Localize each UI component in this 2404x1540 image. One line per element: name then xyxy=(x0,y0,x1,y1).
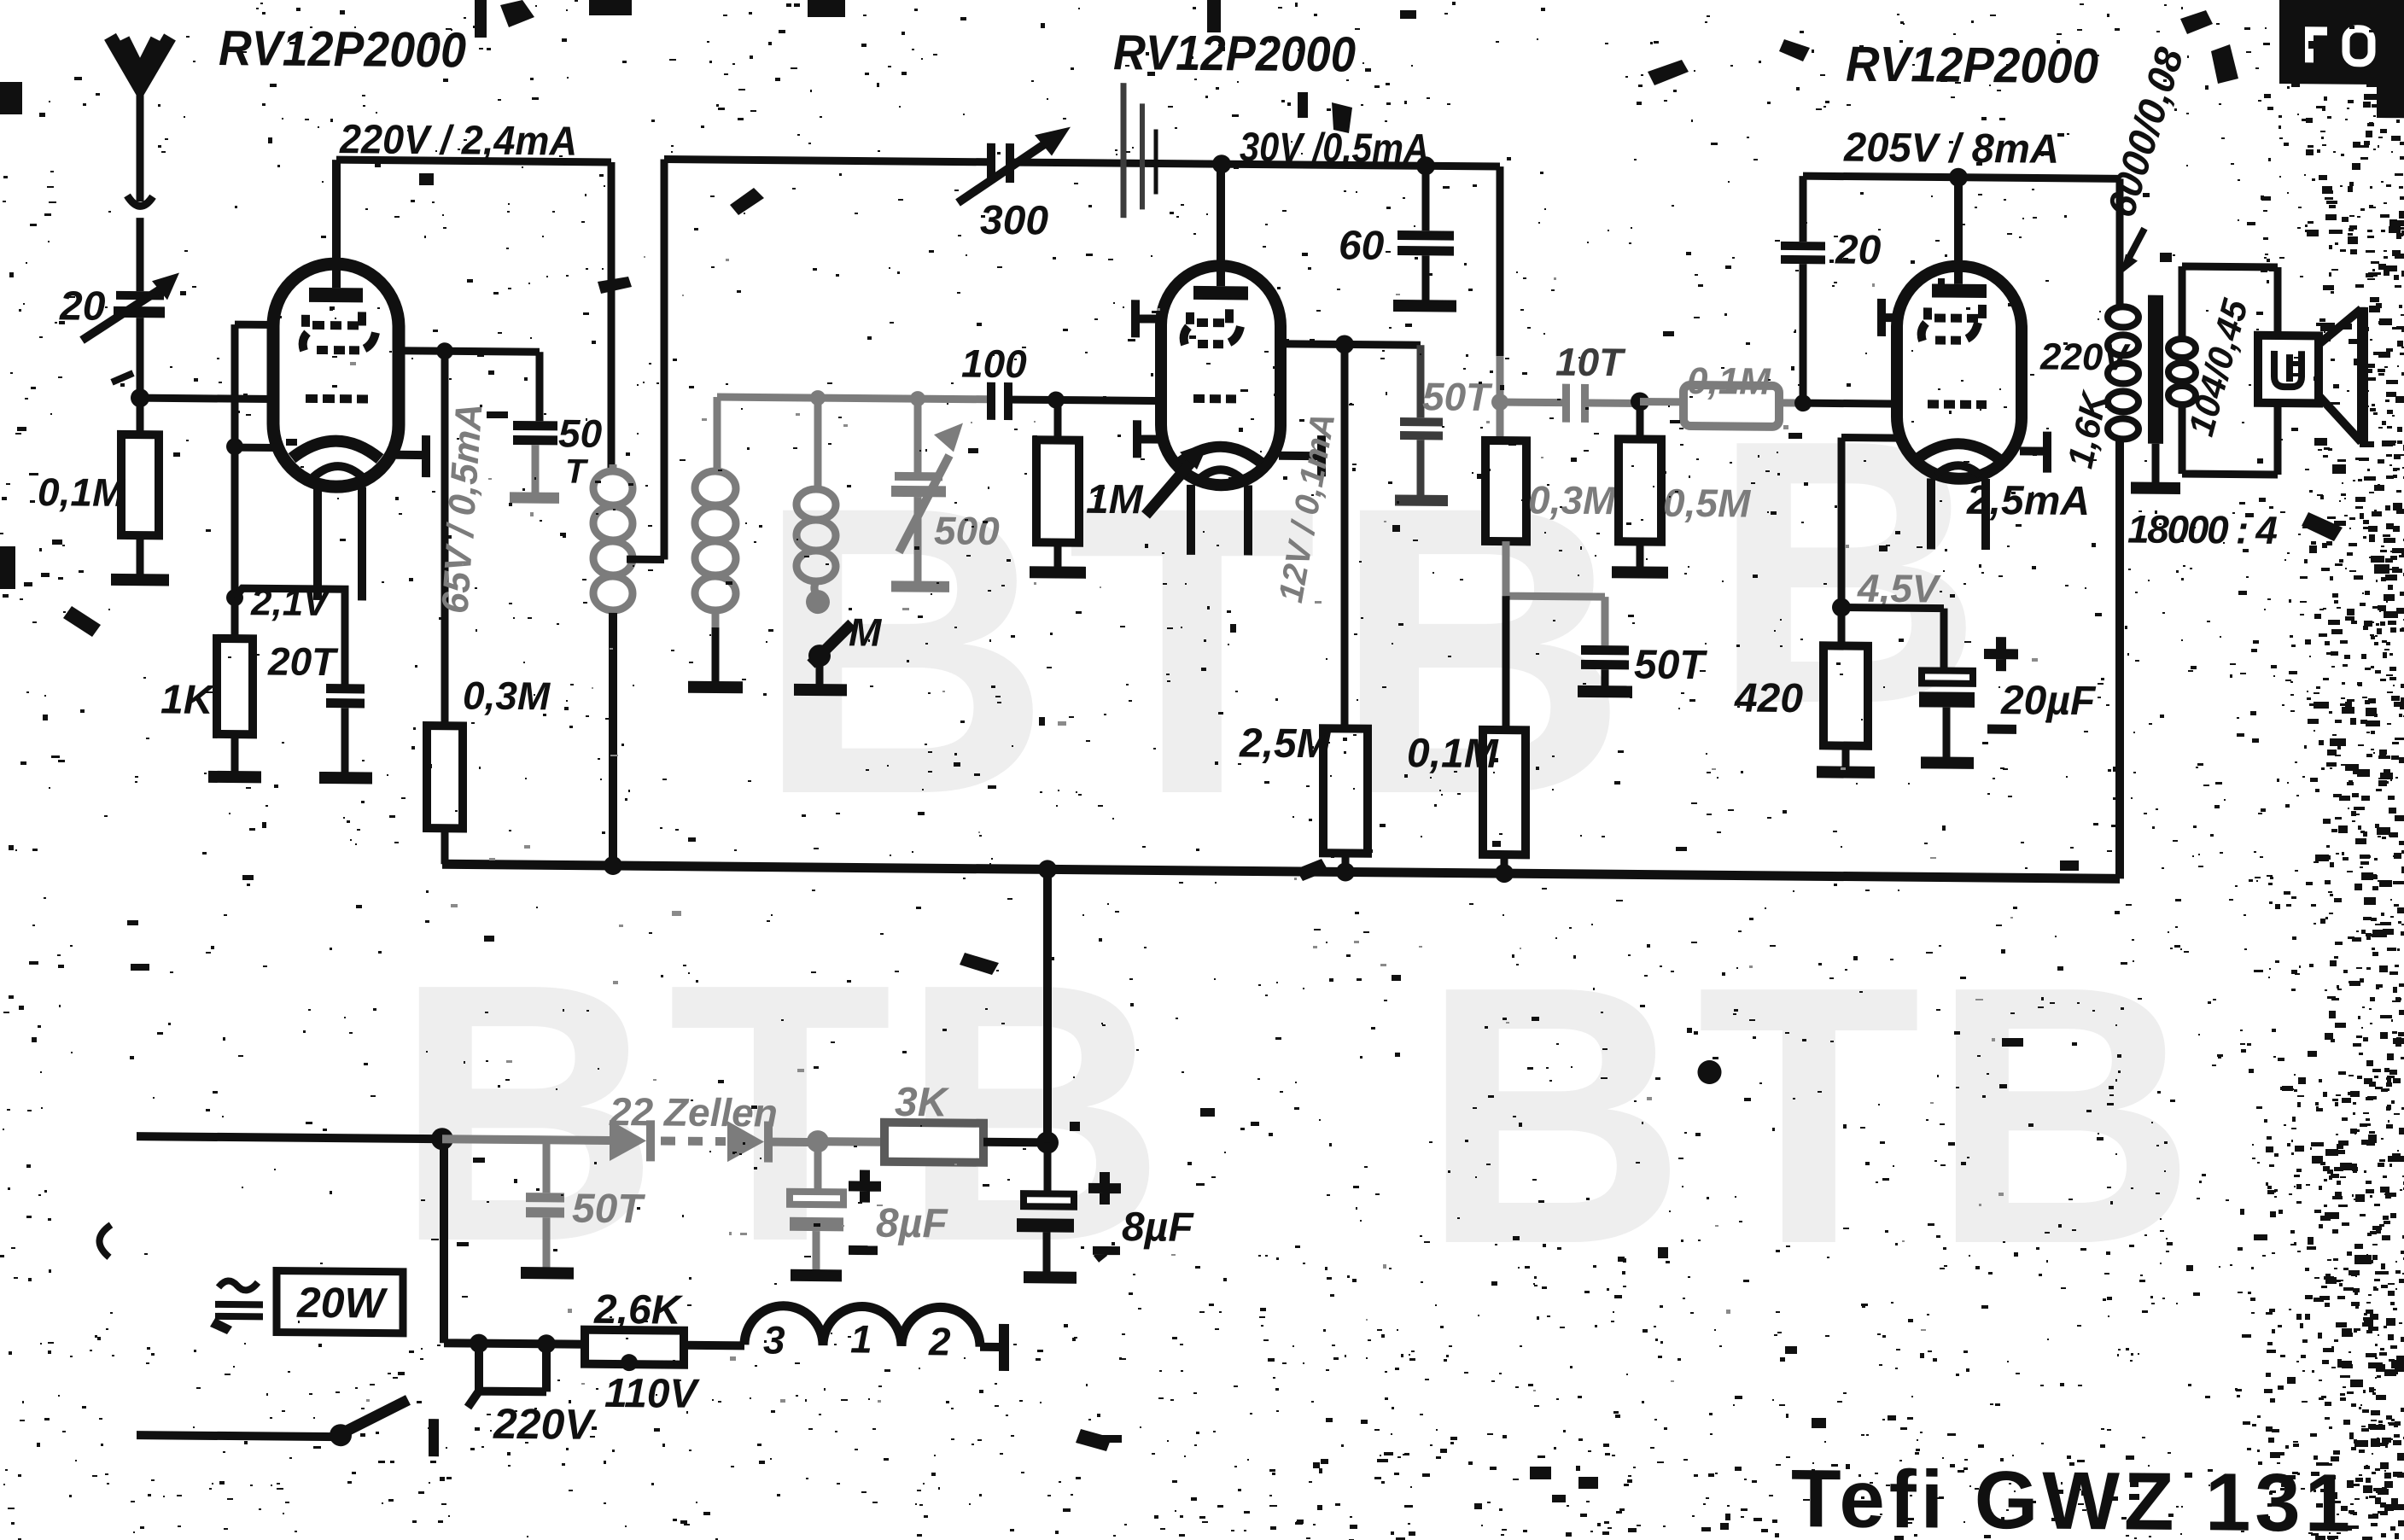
wire rail2 right corner down xyxy=(1497,166,1504,356)
ground (L2) xyxy=(688,681,743,694)
svg-text:10T: 10T xyxy=(1555,340,1626,385)
coil L1 (IF transformer primary, gray) xyxy=(593,464,633,615)
svg-text:2,6K: 2,6K xyxy=(593,1287,684,1333)
capacitor 60 xyxy=(1397,166,1454,303)
resistor 0,5M xyxy=(1619,401,1661,569)
svg-text:22 Zellen: 22 Zellen xyxy=(609,1089,778,1135)
box 20W xyxy=(277,1271,403,1333)
ground (0,5M) xyxy=(1612,566,1668,579)
node AC/rectifier xyxy=(431,1128,453,1150)
svg-text:0,3M: 0,3M xyxy=(463,673,551,718)
resistor 0,1M (AVC) xyxy=(1483,730,1526,873)
resistor 0,3M (screen feed) xyxy=(1485,440,1526,541)
node L3 top xyxy=(810,390,826,405)
svg-text:20T: 20T xyxy=(267,639,339,684)
svg-text:1M: 1M xyxy=(1086,477,1144,523)
svg-text:8µF: 8µF xyxy=(876,1201,948,1247)
terminal stub V3 upper left xyxy=(1882,299,1899,336)
svg-text:60: 60 xyxy=(1339,223,1385,268)
wire corner down to 0,1M vertical xyxy=(1502,596,1510,730)
wire L2 bottom xyxy=(712,627,720,684)
arrow 6000/0,08 to primary xyxy=(2121,228,2144,274)
wire 3K to node xyxy=(983,1138,1047,1147)
capacitor 10T (coupling, gray) xyxy=(1500,383,1640,423)
node antenna/grid junction xyxy=(131,388,149,407)
dashed link xyxy=(661,1136,726,1146)
wire AC input upper xyxy=(137,1136,442,1139)
capacitor 50T (AVC bypass) xyxy=(1581,645,1629,688)
wire 2,1V to 20T xyxy=(235,588,345,687)
stamp corner box xyxy=(2279,0,2404,118)
wire screen row to 50T cap xyxy=(396,351,540,352)
ground (500, gray) xyxy=(891,580,949,592)
resistor 0,1M (grid leak) xyxy=(121,398,159,576)
ground (420) xyxy=(1817,766,1875,779)
variable capacitor 500 (gray) xyxy=(891,399,963,584)
output transformer primary 1,6K xyxy=(2108,178,2139,439)
gray line tuned circuits xyxy=(717,397,987,400)
node grid V2 xyxy=(1047,391,1065,408)
node 0,1M/bus xyxy=(1495,864,1514,883)
node rail2/anode V2 xyxy=(1212,155,1231,173)
tube V3 RV12P2000 xyxy=(1897,177,2022,550)
node 4,5V xyxy=(1832,598,1851,616)
ground (50T V2) xyxy=(1395,494,1448,506)
node 0,5M top xyxy=(1631,392,1649,411)
svg-text:20: 20 xyxy=(1835,227,1882,272)
bus (B-) xyxy=(442,864,2120,878)
node 220V tap right xyxy=(537,1334,556,1353)
speaker xyxy=(2258,306,2363,444)
ground (M) xyxy=(794,684,847,697)
wire antenna to grid node xyxy=(137,318,144,399)
mains symbol xyxy=(215,1280,263,1316)
wire AC down to heater line xyxy=(444,1139,586,1344)
ground (50T screen, gray) xyxy=(510,492,559,504)
svg-text:0,5M: 0,5M xyxy=(1663,481,1752,526)
wire node up to bus xyxy=(1043,869,1052,1142)
svg-text:2: 2 xyxy=(928,1319,951,1363)
tube V2 RV12P2000 xyxy=(1161,164,1281,556)
resistor 3K (filter) xyxy=(884,1123,983,1163)
transformer 220V tap loop xyxy=(468,1343,546,1408)
node L3 contact (gray) xyxy=(806,590,830,614)
node B+ filter xyxy=(1036,1131,1059,1153)
switch M xyxy=(808,623,852,686)
resistor 0,1M (grid stopper, gray horizontal) xyxy=(1640,384,1805,427)
node screen junction gray xyxy=(1491,394,1508,411)
svg-text:RV12P2000: RV12P2000 xyxy=(219,20,466,79)
resistor 2,6K (line dropper) xyxy=(585,1330,684,1372)
plus sign (20µF) xyxy=(1984,637,2018,671)
svg-text:18000 : 4: 18000 : 4 xyxy=(2127,506,2278,552)
svg-text:0,1M: 0,1M xyxy=(38,470,126,515)
plus sign (8µF 1) xyxy=(849,1170,881,1202)
node rail2/60 xyxy=(1416,156,1435,175)
wire cathode stub to tube V1 xyxy=(235,444,277,452)
terminal stub V3 right xyxy=(2020,431,2047,472)
node rail3/anode V3 xyxy=(1949,168,1968,187)
wire screen node down to 0,3M xyxy=(441,351,449,726)
wire to 3K (gray) xyxy=(818,1137,884,1146)
svg-text:300: 300 xyxy=(980,198,1048,244)
smudge marks below stage2 label xyxy=(1121,83,1127,218)
svg-text:20µF: 20µF xyxy=(2000,678,2097,724)
wire primary bottom to bus xyxy=(2115,438,2124,878)
stray arc mark xyxy=(99,1225,111,1257)
svg-text:100: 100 xyxy=(961,341,1027,387)
resistor 1K (cathode bias) xyxy=(217,598,253,773)
node 12V xyxy=(1335,335,1354,353)
svg-text:BTB: BTB xyxy=(1421,911,2207,1321)
antenna xyxy=(110,37,170,292)
rectifier diode 1 (22 Zellen) xyxy=(610,1120,655,1161)
wire 0,3M bottom to 50T xyxy=(1506,541,1605,645)
node 2,1V xyxy=(226,589,243,606)
svg-text:500: 500 xyxy=(934,508,1000,553)
wire L1 bottom to bus xyxy=(609,613,617,866)
svg-text:RV12P2000: RV12P2000 xyxy=(1846,37,2098,95)
resistor 0,3M xyxy=(427,726,463,864)
minus mark (8µF 2) xyxy=(1093,1251,1120,1259)
wire 12V node down to 2,5M xyxy=(1341,344,1349,728)
ground (1M) xyxy=(1030,566,1086,579)
transformer core xyxy=(2148,295,2163,444)
capacitor 20 (feedback) xyxy=(1781,176,1825,403)
coil L2 (gray) xyxy=(695,397,736,629)
node screen junction xyxy=(436,342,453,359)
output transformer secondary xyxy=(2168,266,2278,475)
svg-text:50T: 50T xyxy=(1634,642,1707,688)
wire grid to tube V3 xyxy=(1803,400,1899,408)
resistor 420 (cathode bias) xyxy=(1823,645,1868,768)
minus sign (8µF 1) xyxy=(849,1245,878,1255)
terminal stub V2 lower left xyxy=(1137,420,1163,458)
resistor 2,5M xyxy=(1323,728,1368,872)
svg-text:3K: 3K xyxy=(895,1080,950,1126)
svg-text:3: 3 xyxy=(763,1318,785,1362)
svg-text:20: 20 xyxy=(59,283,106,329)
capacitor 20µF (cathode bypass) xyxy=(1841,608,1975,760)
svg-text:T: T xyxy=(565,452,589,490)
coil L3 (gray) xyxy=(796,398,836,595)
node 220V tap left xyxy=(470,1334,488,1353)
node bus/8µF xyxy=(1038,860,1057,878)
svg-text:2,5mA: 2,5mA xyxy=(1966,478,2090,524)
ground (8µF 1) xyxy=(791,1269,842,1282)
ground (50T line) xyxy=(521,1267,574,1280)
node 2,5M/bus xyxy=(1336,862,1355,881)
svg-text:Tefi GWZ 131: Tefi GWZ 131 xyxy=(1791,1453,2350,1540)
capacitor 8µF (filter 2) xyxy=(1017,1142,1074,1273)
tube V1 RV12P2000 xyxy=(273,160,399,601)
svg-text:0,1M: 0,1M xyxy=(1687,360,1771,403)
ground (0,1M) xyxy=(111,574,169,586)
capacitor 50 T (screen bypass) xyxy=(513,352,557,494)
svg-text:0,1M: 0,1M xyxy=(1407,731,1499,777)
wire rail stage 2 (30V) xyxy=(664,160,1500,167)
svg-text:205V / 8mA: 205V / 8mA xyxy=(1843,125,2059,172)
svg-text:2,5M: 2,5M xyxy=(1239,720,1332,767)
ground (core) xyxy=(2152,444,2160,485)
wire cathode V3 xyxy=(1841,438,1899,647)
svg-text:50: 50 xyxy=(558,411,603,455)
wire AC input lower xyxy=(137,1435,335,1437)
svg-text:30V /0,5mA: 30V /0,5mA xyxy=(1240,125,1429,172)
wire grid-cap branch (vertical x275) xyxy=(235,324,275,598)
capacitor 100 (coupling) xyxy=(987,382,1163,422)
svg-text:220V / 2,4mA: 220V / 2,4mA xyxy=(339,117,577,164)
wire L1 tap to oscillator rail xyxy=(627,159,664,559)
choke 3-1-2 (heater dropper) xyxy=(684,1305,1004,1371)
node cathode tap xyxy=(226,438,243,455)
svg-text:0,3M: 0,3M xyxy=(1528,477,1617,522)
terminal stub V2 right xyxy=(1279,435,1322,476)
ground (20µF) xyxy=(1921,756,1974,769)
svg-text:220V: 220V xyxy=(493,1400,596,1449)
svg-text:BTB: BTB xyxy=(394,908,1175,1318)
wire grid line to tube V1 xyxy=(140,398,275,399)
wire anode rail 220V stage 1 xyxy=(336,160,611,471)
wire screen V2 to 12V line xyxy=(1277,344,1421,345)
capacitor 50T (line filter, gray) xyxy=(526,1140,564,1269)
arrow cathode adjust V2 xyxy=(1146,441,1209,516)
svg-text:8µF: 8µF xyxy=(1122,1205,1194,1251)
capacitor 20T (cathode bypass) xyxy=(326,684,365,774)
switch (mains) xyxy=(330,1399,434,1456)
minus sign (20µF) xyxy=(1987,725,2016,734)
node L1/bus xyxy=(604,856,622,875)
node rectifier output (gray) xyxy=(807,1130,829,1152)
ground (50T AVC) xyxy=(1578,685,1632,698)
svg-text:1K: 1K xyxy=(160,677,216,723)
svg-text:1: 1 xyxy=(850,1316,872,1361)
ground (1K) xyxy=(208,771,261,784)
svg-text:420: 420 xyxy=(1734,675,1803,721)
ground (60) xyxy=(1393,300,1456,312)
svg-text:20W: 20W xyxy=(296,1279,388,1327)
terminal stub V2 upper left xyxy=(1135,300,1163,337)
node 500 top xyxy=(910,391,925,406)
variable capacitor 20 (antenna trimmer) xyxy=(82,272,179,383)
rectifier diode 2 (22 Zellen) xyxy=(727,1121,818,1163)
svg-text:50T: 50T xyxy=(572,1187,645,1233)
capacitor 8µF (filter 1, gray) xyxy=(790,1141,843,1271)
capacitor 50T (screen bypass V2) xyxy=(1400,345,1443,497)
node grid V3 xyxy=(1794,394,1812,411)
terminal stub tube V1 right xyxy=(396,435,426,477)
svg-text:110V: 110V xyxy=(604,1371,701,1417)
wire rectifier line (gray) xyxy=(442,1139,610,1140)
plus sign (8µF 2) xyxy=(1088,1172,1121,1205)
ground (8µF 2) xyxy=(1024,1271,1077,1284)
wire rail stage 3 (205V) xyxy=(1803,176,2120,178)
ground (20T) xyxy=(319,772,372,785)
svg-text:M: M xyxy=(849,610,883,654)
resistor 1M (grid leak V2) xyxy=(1036,400,1079,569)
variable capacitor 300 xyxy=(958,126,1071,204)
svg-text:220V: 220V xyxy=(2039,336,2131,379)
svg-text:50T: 50T xyxy=(1422,374,1493,419)
